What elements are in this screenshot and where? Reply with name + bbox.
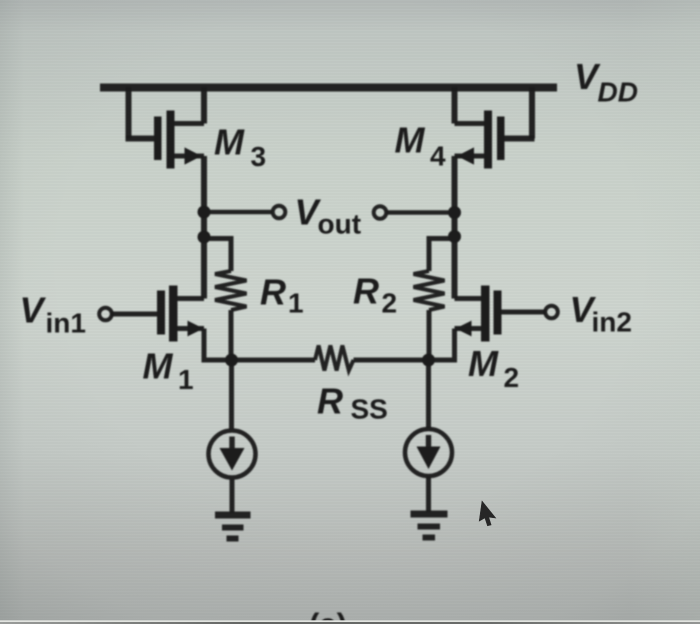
svg-text:M: M (143, 346, 174, 387)
wire left column to M1 drain (201, 212, 207, 299)
label Vin2 (570, 289, 632, 338)
svg-text:1: 1 (288, 288, 304, 319)
wire to right current source (426, 360, 431, 428)
svg-text:R: R (317, 381, 343, 422)
wire right current source to ground (426, 477, 431, 512)
node left tail junction (225, 354, 238, 367)
resistor R1 (204, 239, 247, 361)
label M2 (468, 343, 519, 393)
wire M2 source down (354, 329, 455, 361)
transistor M4 (455, 87, 535, 169)
svg-text:R: R (353, 271, 379, 312)
svg-text:2: 2 (382, 288, 398, 319)
node right R2 junction (448, 230, 461, 243)
label Vin1 (20, 290, 86, 339)
terminal Vin1 (99, 308, 112, 321)
svg-text:M: M (214, 122, 245, 163)
svg-text:V: V (20, 290, 47, 331)
label M4 (395, 120, 447, 172)
label R1 (260, 272, 304, 319)
label M3 (214, 122, 266, 173)
wire M3 drain to Vout node (201, 156, 207, 212)
svg-text:4: 4 (430, 141, 446, 172)
label R2 (353, 271, 397, 319)
node left Vout junction (198, 206, 211, 219)
wire left current source to ground (230, 479, 235, 513)
svg-text:DD: DD (598, 77, 638, 108)
ground right (411, 514, 448, 538)
current source right (405, 429, 452, 476)
wire Vout left (204, 210, 273, 215)
label RSS (317, 381, 388, 425)
svg-text:in1: in1 (46, 308, 86, 339)
svg-text:M: M (395, 120, 426, 161)
label Vout (295, 192, 362, 240)
node left R1 junction (198, 231, 211, 244)
wire to left current source (229, 360, 234, 430)
terminal Vout left (273, 206, 286, 219)
terminal Vout right (374, 206, 387, 219)
svg-text:SS: SS (351, 394, 388, 425)
wire M1 source down (204, 329, 315, 361)
svg-text:2: 2 (504, 362, 520, 393)
label VDD (574, 56, 638, 108)
label M1 (143, 346, 194, 396)
current source left (209, 431, 256, 478)
transistor M1 (111, 286, 204, 342)
node right tail junction (422, 354, 435, 367)
mouse cursor (479, 501, 498, 527)
transistor M2 (455, 286, 546, 342)
transistor M3 (126, 87, 205, 169)
svg-text:R: R (260, 272, 286, 313)
terminal Vin2 (545, 306, 558, 319)
svg-text:1: 1 (178, 364, 194, 395)
wire M4 drain to right node (452, 156, 458, 213)
wire right column to M2 drain (452, 213, 458, 299)
ground left (215, 515, 251, 539)
svg-text:out: out (318, 209, 362, 240)
resistor R2 (414, 239, 455, 361)
wire Vout right (387, 210, 455, 215)
svg-text:M: M (468, 343, 499, 384)
svg-text:3: 3 (251, 141, 267, 172)
node right Vout junction (448, 206, 461, 219)
resistor RSS (315, 346, 354, 371)
svg-text:in2: in2 (592, 307, 632, 338)
VDD rail wire (100, 84, 557, 92)
